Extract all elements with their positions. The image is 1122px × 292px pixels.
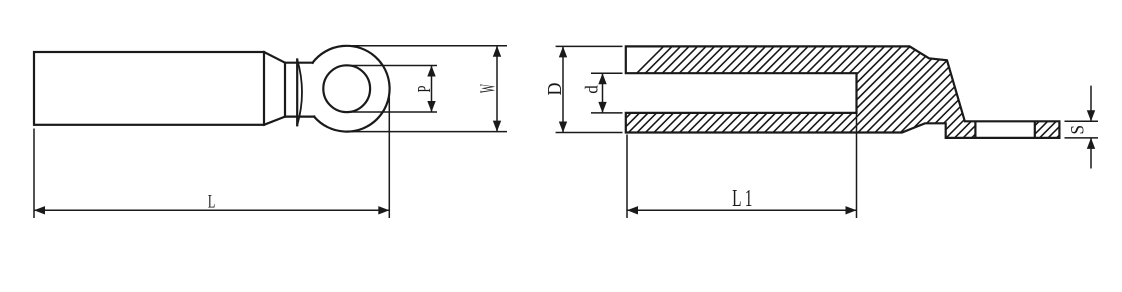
svg-text:L 1: L 1 (732, 186, 752, 212)
svg-text:d: d (581, 85, 602, 94)
svg-text:L: L (208, 192, 215, 212)
svg-text:W: W (475, 84, 500, 93)
svg-text:P: P (415, 85, 435, 92)
svg-text:S: S (1066, 125, 1087, 135)
svg-text:D: D (544, 83, 566, 96)
